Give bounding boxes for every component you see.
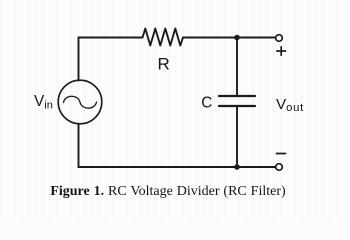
label minus — [277, 153, 286, 155]
wire top-left horizontal — [79, 37, 143, 39]
source V1 circle — [58, 80, 102, 124]
svg-text:Vout: Vout — [276, 96, 304, 114]
terminal - (open circle) — [276, 164, 283, 171]
sine wave — [64, 96, 97, 108]
caption — [0, 184, 336, 200]
wire bottom horizontal — [79, 166, 276, 168]
node junction bottom — [234, 164, 240, 170]
terminal + (open circle) — [276, 35, 283, 42]
svg-text:C: C — [201, 94, 212, 111]
capacitor C plates — [219, 96, 255, 106]
label + — [277, 47, 286, 55]
wire capacitor bottom lead — [236, 106, 238, 167]
wire left vertical (source top lead) — [78, 38, 80, 81]
resistor R — [143, 29, 184, 46]
wire capacitor top lead — [236, 40, 238, 96]
wire resistor to junction and output terminal — [183, 37, 275, 39]
svg-text:R: R — [158, 55, 170, 74]
svg-text:Vin: Vin — [34, 93, 53, 111]
wire source bottom lead — [78, 124, 80, 167]
node junction top — [234, 35, 240, 41]
